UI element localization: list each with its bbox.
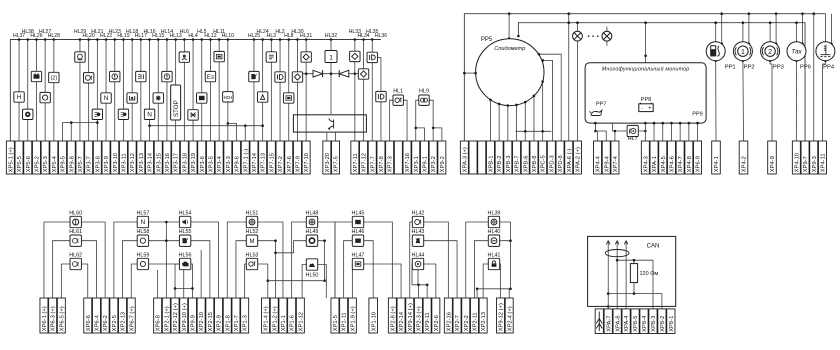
svg-text:HL45: HL45 <box>352 210 365 216</box>
wire lamp left <box>576 23 578 141</box>
lamp HL45 icon <box>352 216 363 227</box>
junction <box>614 130 617 133</box>
svg-text:XP3-19: XP3-19 <box>191 153 197 172</box>
wire bus to pin 2 <box>18 40 20 142</box>
junction <box>305 72 308 75</box>
svg-text:PP1: PP1 <box>725 65 736 71</box>
wire bus to pin 26 <box>227 40 229 142</box>
wire to XP3-20 <box>326 132 328 141</box>
wire bus to pin 25 <box>218 40 220 142</box>
connector pin XP5-7 <box>76 141 84 174</box>
svg-text:XPA-6 (-): XPA-6 (-) <box>567 149 573 173</box>
svg-text:H: H <box>17 94 22 101</box>
junction <box>476 288 479 291</box>
svg-text:XP2-2: XP2-2 <box>464 315 470 331</box>
junction <box>18 38 21 41</box>
svg-text:XPB-1: XPB-1 <box>489 156 495 173</box>
connector pin XP4-10 <box>792 141 800 174</box>
connector pin XP4-4 <box>594 141 602 174</box>
wire bus to pin 13 <box>114 40 116 142</box>
lamp HL53 icon <box>246 258 257 269</box>
junction <box>274 239 277 242</box>
wire PP1 top <box>715 23 717 42</box>
wire jog under speedometer <box>516 130 552 132</box>
connector pin XP8-5 <box>631 309 639 334</box>
svg-text:XPA-4: XPA-4 <box>624 315 630 332</box>
svg-text:XP9-9: XP9-9 <box>191 315 197 331</box>
svg-text:XP2-13: XP2-13 <box>121 312 127 331</box>
junction <box>742 59 745 62</box>
wire monitor feed <box>645 23 647 63</box>
bus 2 top right <box>518 23 805 141</box>
junction <box>538 53 541 56</box>
junction <box>769 59 772 62</box>
lamp HL54 icon <box>179 216 190 227</box>
indicator icon on wire 23 <box>197 93 207 103</box>
connector pin XP5-6 <box>24 141 32 174</box>
junction <box>209 38 212 41</box>
connector pin XP9-3 <box>810 141 818 174</box>
wire diode line <box>303 73 359 75</box>
connector pin XPB-1 <box>486 141 494 174</box>
indicator icon on wire 32 <box>275 72 285 82</box>
svg-text:XP6-5 (+): XP6-5 (+) <box>59 306 65 331</box>
indicator icon on wire 5 <box>40 92 50 102</box>
svg-text:XP5-1 (+): XP5-1 (+) <box>8 147 14 172</box>
gauge PP6 <box>787 42 806 61</box>
svg-text:XP9-1: XP9-1 <box>423 156 429 172</box>
wire HL57/HL58 right join <box>149 222 180 298</box>
junction <box>824 59 827 62</box>
junction <box>323 279 326 282</box>
wire PP6 edge <box>802 14 804 44</box>
svg-text:HL39: HL39 <box>488 210 501 216</box>
wire HL51 left <box>227 222 246 298</box>
junction <box>140 38 143 41</box>
connector pin blank <box>469 141 477 174</box>
connector pin XP9-8 <box>67 141 75 174</box>
svg-text:HL51: HL51 <box>246 210 259 216</box>
wire HL58 left <box>123 241 138 298</box>
junction <box>670 122 673 125</box>
CAN cable ellipse <box>605 250 629 257</box>
junction <box>775 43 778 46</box>
shield ground symbol in pin <box>596 312 602 332</box>
svg-text:XP3-4: XP3-4 <box>217 155 223 172</box>
connector pin XP2-13 <box>479 298 487 333</box>
svg-text:HL48: HL48 <box>306 210 319 216</box>
connector pin XP3-5 <box>206 141 214 174</box>
svg-text:XP7-2: XP7-2 <box>278 156 284 172</box>
connector pin XP9-7 <box>801 141 809 174</box>
connector pin XP6-3 (+) <box>49 298 57 333</box>
svg-text:XP1-12: XP1-12 <box>298 312 304 331</box>
lamp HL51 icon <box>246 216 257 227</box>
connector pin XPA-7 <box>604 309 612 334</box>
svg-text:XP2-15: XP2-15 <box>208 312 214 331</box>
junction <box>183 38 186 41</box>
junction <box>87 38 90 41</box>
svg-text:XP9-14 (+): XP9-14 (+) <box>408 303 414 331</box>
junction <box>748 12 751 15</box>
svg-text:HL49: HL49 <box>306 229 319 235</box>
svg-text:XP3-9: XP3-9 <box>104 156 110 172</box>
wire HL43/44 bottom jog <box>412 264 427 298</box>
wire HL36 <box>380 57 382 141</box>
svg-text:120 Ом: 120 Ом <box>640 271 659 277</box>
junction <box>498 103 501 106</box>
svg-text:XP3-2: XP3-2 <box>431 156 437 172</box>
wire bus to pin 6 <box>53 40 55 142</box>
connector pin XP1-12 <box>296 298 304 333</box>
gauge PP2 <box>733 42 752 61</box>
lamp HL32 box 1 <box>325 51 337 63</box>
connector pin XP7-8 <box>377 141 385 174</box>
indicator icon on wire 31 <box>266 52 276 62</box>
svg-text:XP2-7: XP2-7 <box>455 315 461 331</box>
junction <box>509 239 512 242</box>
junction <box>96 121 99 124</box>
connector pin XPB-7 <box>513 141 521 174</box>
junction <box>644 122 647 125</box>
junction <box>542 59 545 62</box>
connector pin XP4-2 <box>739 141 748 174</box>
junction <box>515 104 518 107</box>
lamp HL49 icon <box>306 235 317 246</box>
junction <box>607 305 610 308</box>
wire speedometer to pin <box>516 105 518 141</box>
junction <box>227 122 230 125</box>
svg-text:XP2-14: XP2-14 <box>399 311 405 331</box>
svg-text:HL10: HL10 <box>222 33 234 39</box>
svg-text:N: N <box>104 95 109 102</box>
svg-text:PP5: PP5 <box>481 37 493 43</box>
wire HL55 right <box>191 241 210 298</box>
svg-text:XP6-1 (+): XP6-1 (+) <box>42 306 48 331</box>
connector pin XP4-11 <box>818 141 826 174</box>
indicator icon on wire 22 <box>188 110 198 120</box>
connector pin XP2-2 <box>462 298 470 333</box>
svg-text:N: N <box>141 219 146 226</box>
connector pin XP3-14 <box>146 141 154 174</box>
gauge PP1 <box>706 42 725 61</box>
junction <box>594 130 597 133</box>
junction <box>330 72 333 75</box>
svg-text:XP9-6: XP9-6 <box>235 156 241 172</box>
svg-text:XP7-6: XP7-6 <box>287 156 293 172</box>
connector pin XP2-7 <box>453 298 461 333</box>
connector pin XP3-6 <box>198 141 206 174</box>
svg-text:XP3-8: XP3-8 <box>95 156 101 172</box>
wire PP3 top <box>769 23 771 42</box>
wire speedometer to pin <box>489 100 491 141</box>
connector pin XP6-1 (+) <box>40 298 48 333</box>
wire HL32 vertical <box>330 40 332 115</box>
wire PP6 top <box>796 23 798 42</box>
wire speedometer right tap 2 <box>543 60 553 141</box>
wire HL60 left <box>44 222 70 298</box>
svg-text:XP3-18: XP3-18 <box>182 153 188 172</box>
lamp HL42 icon <box>412 216 423 227</box>
svg-text:PP6: PP6 <box>800 65 811 71</box>
junction <box>113 38 116 41</box>
connector pin XPB-3 <box>504 141 512 174</box>
junction <box>432 127 435 130</box>
wire PP2 edge <box>748 14 750 44</box>
connector pin XP1-11 <box>340 298 348 333</box>
wire bus to pin 5 <box>44 40 46 142</box>
junction <box>524 101 527 104</box>
junction <box>105 38 108 41</box>
wire lamp right stubs <box>606 27 608 46</box>
indicator icon on wire 10 <box>83 73 93 83</box>
connector pin XP4-5 <box>659 141 667 174</box>
connector pin XP3-12 <box>128 141 136 174</box>
lamp HL1 group <box>390 100 407 141</box>
svg-text:XP3-3: XP3-3 <box>226 156 232 172</box>
svg-text:XPA-2 (+): XPA-2 (+) <box>576 147 582 172</box>
connector pin XP2-14 <box>397 298 405 333</box>
connector pin XP3-17 <box>172 141 180 174</box>
wire bus to pin 9 <box>79 40 81 142</box>
connector pin XP6-4 <box>92 298 100 333</box>
junction <box>53 38 56 41</box>
wire speedometer left tap <box>464 72 475 74</box>
svg-text:XP7-8: XP7-8 <box>379 156 385 172</box>
connector pin XP9-11 <box>423 298 431 333</box>
svg-text:XP5-7: XP5-7 <box>78 156 84 172</box>
wire bus to pin 14 <box>122 40 124 142</box>
lamp HL36 icon <box>376 91 386 101</box>
connector pin XP1-3 <box>241 298 249 333</box>
junction <box>720 43 723 46</box>
connector pin XP7-16 <box>403 141 411 174</box>
svg-text:XP3-12: XP3-12 <box>130 153 136 172</box>
wire PP1 bottom <box>715 61 717 141</box>
wire bus to pin 19 <box>166 40 168 142</box>
wire HL44 right <box>424 264 436 298</box>
svg-text:XP8-5: XP8-5 <box>633 316 639 332</box>
wire jog h288.8 <box>477 289 510 298</box>
lamp HL46 icon <box>352 235 363 246</box>
junction <box>801 12 804 15</box>
wire PP3 bottom <box>770 61 772 141</box>
svg-text:HL60: HL60 <box>69 210 82 216</box>
connector pin XPA-4 <box>622 309 630 334</box>
connector pin XP3-4 <box>215 141 223 174</box>
junction <box>474 72 477 75</box>
connector pin XP3-9 <box>102 141 110 174</box>
svg-text:XP8-4: XP8-4 <box>642 315 648 332</box>
wire runner y280.7 <box>268 280 327 282</box>
junction <box>157 38 160 41</box>
svg-text:XP1-7: XP1-7 <box>234 315 240 331</box>
connector pin XP6-9 <box>694 141 702 174</box>
wire bus to pin 10 <box>88 40 90 142</box>
connector pin XP9-9 <box>188 298 196 333</box>
svg-text:PP4: PP4 <box>823 65 835 71</box>
junction <box>489 98 492 101</box>
svg-text:XP3-15: XP3-15 <box>156 153 162 172</box>
connector pin XP2-10 <box>197 298 205 333</box>
wire HL62 right <box>81 264 87 298</box>
connector pin XP8-2 <box>658 309 666 334</box>
junction <box>533 95 536 98</box>
svg-text:HL47: HL47 <box>352 252 365 258</box>
connector pin XP3-10 <box>111 141 119 174</box>
svg-text:XPA-8: XPA-8 <box>615 315 621 331</box>
wire bus to pin 16 <box>140 40 142 142</box>
junction <box>812 12 815 15</box>
connector pin XP5-4 <box>50 141 58 174</box>
svg-text:XP9-12 (+): XP9-12 (+) <box>499 303 505 331</box>
junction <box>279 38 282 41</box>
svg-text:HL42: HL42 <box>412 210 425 216</box>
svg-text:Многофункциональный монитор: Многофункциональный монитор <box>602 66 690 73</box>
junction <box>227 38 230 41</box>
junction <box>274 252 277 255</box>
svg-text:HL40: HL40 <box>488 229 501 235</box>
svg-text:XP5-2: XP5-2 <box>35 156 41 172</box>
connector pin XP6-7 (+) <box>127 298 135 333</box>
svg-text:XP7-12: XP7-12 <box>362 153 368 172</box>
wire bus to pin 11 <box>96 40 98 142</box>
connector pin XPA-3 (+) <box>460 141 468 174</box>
svg-text:XP6-4: XP6-4 <box>95 314 101 331</box>
svg-text:XPB-6: XPB-6 <box>523 156 529 173</box>
svg-text:HL36: HL36 <box>375 33 387 39</box>
connector pin XPD-8 <box>556 141 564 174</box>
junction <box>509 288 512 291</box>
wire speedometer to pin <box>524 102 526 141</box>
wire HL41 right <box>499 264 502 298</box>
wire HL46 right <box>364 241 374 298</box>
junction <box>541 130 544 133</box>
connector pin blank <box>394 141 402 174</box>
wire HL49 right down <box>318 241 325 281</box>
wire monitor output <box>670 123 672 141</box>
svg-text:XP7-5: XP7-5 <box>334 156 340 172</box>
svg-text:XP8-1: XP8-1 <box>669 316 675 332</box>
wire speedometer to pin <box>533 96 535 141</box>
wire HL61 left <box>53 241 70 298</box>
svg-text:XP9-8: XP9-8 <box>69 156 75 172</box>
svg-text:HL54: HL54 <box>179 210 192 216</box>
junction <box>354 38 357 41</box>
connector pin XP3-2 <box>429 141 437 174</box>
svg-text:HL46: HL46 <box>352 229 365 235</box>
svg-text:STOP: STOP <box>173 100 180 117</box>
connector pin XP7-1 (-) <box>241 141 249 174</box>
junction <box>44 38 47 41</box>
wire PP1 edge <box>721 14 723 44</box>
svg-text:XP6-2: XP6-2 <box>103 315 109 331</box>
multifunction monitor box <box>585 63 706 123</box>
wire HL49 left runner <box>276 241 307 253</box>
svg-text:PP3: PP3 <box>773 65 784 71</box>
junction <box>131 38 134 41</box>
wire bus to pin 33 <box>288 40 290 142</box>
svg-text:XP1-10: XP1-10 <box>371 312 377 331</box>
svg-text:XP6-9: XP6-9 <box>696 156 702 172</box>
wire HL53 left <box>245 264 247 298</box>
junction <box>508 37 511 40</box>
lamp HL61 icon <box>70 235 81 246</box>
wire HL57 left <box>114 222 137 298</box>
indicator icon on wire 35 <box>301 52 311 62</box>
svg-text:XP3-7: XP3-7 <box>87 156 93 172</box>
junction <box>576 21 579 24</box>
wire HL47 left <box>351 264 353 298</box>
connector pin XP5-3 <box>41 141 49 174</box>
svg-text:М: М <box>250 239 255 245</box>
svg-text:HL43: HL43 <box>412 229 425 235</box>
svg-text:XP4-2: XP4-2 <box>742 156 748 172</box>
lamp HL33 icon <box>350 51 360 61</box>
wire monitor output <box>653 123 655 141</box>
junction <box>688 122 691 125</box>
junction <box>644 21 647 24</box>
battery icon PP8 <box>639 104 653 112</box>
svg-text:XP4-4: XP4-4 <box>596 155 602 172</box>
svg-text:XP4-1: XP4-1 <box>714 156 720 172</box>
junction <box>261 38 264 41</box>
junction <box>508 12 511 15</box>
junction <box>679 122 682 125</box>
junction <box>296 38 299 41</box>
transistor Q1 symbol <box>329 118 334 129</box>
junction <box>414 127 417 130</box>
wire HL48 right <box>318 222 335 298</box>
wire HL48 left <box>292 222 307 298</box>
wire HL61 right <box>81 241 96 298</box>
svg-text:XP9-4: XP9-4 <box>604 155 610 172</box>
indicator icon on wire 2 <box>14 92 24 102</box>
connector pin XP8-1 <box>667 309 675 334</box>
wire PP2 bottom <box>742 61 745 141</box>
junction <box>191 287 194 290</box>
wire HL35 <box>371 40 373 142</box>
wire bus to pin 18 <box>157 40 159 142</box>
connector pin XP7-3 <box>386 141 394 174</box>
gauge PP5 speedometer <box>476 39 544 106</box>
connector pin XP1-5 <box>331 298 339 333</box>
junction <box>165 221 168 224</box>
wire HL40 left <box>474 241 488 298</box>
svg-text:XPB-3: XPB-3 <box>506 156 512 173</box>
lamp HL56 icon <box>179 258 190 269</box>
svg-text:XP2-5: XP2-5 <box>112 315 118 331</box>
wire bus to pin 34 <box>296 40 298 142</box>
connector pin XP6-2 <box>101 298 109 333</box>
svg-text:CAN: CAN <box>647 244 660 250</box>
connector pin XP2-6 <box>432 298 440 333</box>
junction <box>714 21 717 24</box>
indicator icon on wire 9 <box>75 52 85 62</box>
junction <box>305 38 308 41</box>
svg-text:XP1-8: XP1-8 <box>225 315 231 331</box>
connector pin blank <box>595 309 603 334</box>
svg-text:XP6-8: XP6-8 <box>156 315 162 331</box>
svg-text:XP3-11: XP3-11 <box>122 153 128 172</box>
connector pin XP7-5 <box>332 141 340 174</box>
gauge PP3 <box>761 42 780 61</box>
junction <box>775 12 778 15</box>
junction <box>616 259 619 262</box>
svg-text:XP4-10: XP4-10 <box>794 153 800 172</box>
connector pin XP7-10 <box>302 141 310 174</box>
connector pin XP3-3 <box>224 141 232 174</box>
